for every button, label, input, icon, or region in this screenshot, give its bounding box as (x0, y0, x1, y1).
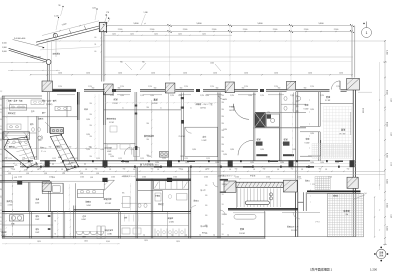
svg-text:1,350: 1,350 (86, 72, 90, 74)
svg-text:1,2: 1,2 (0, 182, 2, 184)
curved wall in multi room (234, 104, 250, 120)
svg-text:910: 910 (291, 169, 294, 171)
svg-text:9.0 M2: 9.0 M2 (304, 108, 309, 110)
door arc top-right (331, 81, 340, 90)
svg-text:1,215: 1,215 (140, 158, 144, 160)
svg-text:1,350: 1,350 (339, 72, 343, 74)
svg-text:2,900: 2,900 (118, 29, 123, 31)
svg-text:2,730: 2,730 (170, 95, 174, 97)
svg-text:2,900: 2,900 (304, 29, 309, 31)
svg-text:3,300: 3,300 (386, 50, 388, 55)
svg-text:1,820: 1,820 (86, 119, 90, 121)
svg-text:910: 910 (90, 125, 93, 127)
svg-text:5,800: 5,800 (133, 23, 139, 25)
svg-text:2,730: 2,730 (336, 86, 340, 88)
lower center fixtures (122, 228, 130, 234)
svg-text:1,215: 1,215 (118, 158, 122, 160)
partition x135 (134, 92, 136, 161)
svg-text:2,900: 2,900 (183, 29, 188, 31)
fixture in left mid room (110, 126, 117, 132)
svg-text:1,8: 1,8 (85, 169, 87, 171)
svg-text:4,200: 4,200 (386, 153, 388, 158)
svg-text:910: 910 (147, 107, 150, 109)
svg-text:1,820: 1,820 (110, 156, 114, 158)
svg-text:91: 91 (222, 204, 224, 206)
leader line with arrow (13, 40, 45, 48)
east dim line x385 (384, 40, 386, 245)
hall right wall (295, 192, 297, 237)
svg-text:960: 960 (120, 62, 123, 64)
svg-text:1,2: 1,2 (0, 217, 2, 219)
center room fixtures (155, 193, 161, 201)
svg-text:1,820: 1,820 (125, 162, 129, 164)
svg-text:1,38: 1,38 (80, 173, 83, 175)
svg-text:1,215: 1,215 (206, 158, 210, 160)
east wall (352, 90, 354, 193)
svg-text:1,2: 1,2 (213, 235, 215, 237)
parking grid (328, 194, 364, 237)
svg-text:2,730: 2,730 (210, 86, 214, 88)
svg-text:1,820: 1,820 (248, 95, 252, 97)
hall column left (224, 181, 236, 192)
svg-text:1.5 M2: 1.5 M2 (113, 103, 118, 105)
svg-text:1,2: 1,2 (0, 98, 2, 100)
svg-text:90: 90 (0, 119, 2, 121)
washitsu A walls (300, 126, 320, 128)
column circle at W1 end (46, 60, 51, 65)
svg-text:1,820: 1,820 (310, 162, 314, 164)
svg-text:910: 910 (263, 169, 266, 171)
svg-text:900: 900 (304, 87, 307, 89)
light partition x167 (167, 212, 169, 239)
svg-text:2,900: 2,900 (235, 176, 239, 178)
svg-text:12.6M2: 12.6M2 (107, 234, 112, 236)
svg-text:910: 910 (205, 205, 208, 207)
kitchen fixtures row west (97, 226, 101, 239)
svg-text:2,730: 2,730 (230, 95, 234, 97)
svg-text:1,38: 1,38 (8, 173, 11, 175)
washroom basins (9, 215, 23, 221)
column C4 (225, 82, 234, 93)
svg-text:2,900: 2,900 (266, 176, 270, 178)
wall below circle column (46, 64, 48, 81)
right margin extra ticks (384, 94, 385, 95)
svg-text:CL: CL (160, 108, 162, 110)
corridor wall gaps white (33, 160, 40, 162)
svg-text:960: 960 (142, 62, 145, 64)
svg-text:2,730: 2,730 (390, 162, 392, 166)
svg-text:1,2: 1,2 (227, 235, 229, 237)
dim line y74.8 (30, 74, 352, 76)
svg-text:防火戸: 防火戸 (201, 189, 206, 192)
dark wall segment left (53, 88, 77, 90)
hall stair treads (237, 188, 239, 207)
svg-text:1,820: 1,820 (223, 154, 227, 156)
svg-text:2,900: 2,900 (173, 176, 177, 178)
dim line x151 with ticks (151, 100, 153, 158)
svg-text:1,38: 1,38 (34, 157, 37, 159)
svg-text:1,820: 1,820 (223, 184, 227, 186)
light grid right section (312, 143, 352, 145)
partition x181-184 (180, 93, 182, 161)
door arcs corridor (213, 182, 218, 187)
left top wall segment (2, 95, 42, 97)
svg-text:1,350: 1,350 (58, 72, 62, 74)
corridor ticks (7, 171, 8, 172)
partition x168 thin (167, 93, 169, 161)
svg-text:1,130: 1,130 (54, 16, 59, 18)
svg-text:1,8: 1,8 (0, 229, 2, 231)
column C1 (42, 81, 53, 92)
grid aux line x51 (51, 40, 53, 81)
svg-text:2.73: 2.73 (312, 184, 315, 186)
column C5 (287, 81, 296, 90)
svg-text:4,500: 4,500 (386, 122, 388, 127)
svg-text:調理実習室: 調理実習室 (105, 229, 114, 232)
column C3 (165, 83, 175, 93)
more door thresholds (112, 89, 116, 92)
svg-text:2,730: 2,730 (120, 86, 124, 88)
center block top wall dark (136, 178, 191, 180)
svg-text:1,215: 1,215 (52, 158, 56, 160)
svg-text:CL: CL (190, 108, 192, 110)
svg-text:便所: 便所 (36, 215, 40, 218)
svg-text:2,900: 2,900 (111, 176, 115, 178)
svg-text:2,900: 2,900 (150, 29, 155, 31)
mid partition y225 center (121, 225, 189, 227)
large door arc multi room south (238, 140, 253, 155)
eaves line (103, 56, 353, 58)
svg-text:910: 910 (222, 144, 225, 146)
wc block walls vertical (29, 212, 31, 239)
svg-text:1,2: 1,2 (0, 231, 2, 233)
svg-text:910: 910 (39, 169, 42, 171)
svg-text:91: 91 (222, 214, 224, 216)
svg-text:1.5M2: 1.5M2 (35, 219, 39, 221)
svg-text:90: 90 (0, 149, 2, 151)
svg-text:1,38: 1,38 (96, 173, 99, 175)
top band grid dot pairs (103, 24, 104, 25)
dimension line top-1 (104, 25, 352, 27)
stair ramp A (4, 137, 37, 168)
bottom dim line left (2, 243, 120, 245)
svg-text:910: 910 (222, 95, 225, 97)
svg-text:1,820: 1,820 (180, 156, 184, 158)
wall x104 upper dark (103, 92, 105, 125)
svg-text:150×150×900: 150×150×900 (30, 56, 41, 59)
svg-text:1,38: 1,38 (52, 177, 55, 179)
svg-text:2,900: 2,900 (212, 29, 217, 31)
svg-text:1,450: 1,450 (202, 33, 206, 35)
svg-text:倉庫: 倉庫 (31, 110, 35, 113)
dim line y35 partial (104, 34, 232, 36)
toilet block top wall (2, 211, 120, 213)
svg-text:1,8: 1,8 (61, 169, 63, 171)
svg-text:5,800: 5,800 (257, 23, 263, 25)
svg-text:1,2: 1,2 (0, 168, 2, 170)
svg-text:9.1 M2: 9.1 M2 (202, 140, 207, 142)
svg-text:1,2: 1,2 (0, 210, 2, 212)
svg-text:2,730: 2,730 (274, 86, 278, 88)
svg-text:1,8: 1,8 (157, 169, 159, 171)
left dim line y62 (0, 62, 45, 64)
svg-text:1.5M2: 1.5M2 (35, 232, 39, 234)
svg-text:91: 91 (222, 194, 224, 196)
left fixtures row2 (7, 124, 21, 130)
door jamb mark left (17, 181, 22, 185)
dim ticks y103 row (107, 102, 108, 103)
washitsu B bottom wall (300, 155, 320, 157)
svg-text:910: 910 (147, 139, 150, 141)
svg-text:60: 60 (95, 51, 97, 53)
lower-left partitions (27, 182, 29, 211)
svg-text:5,0: 5,0 (365, 193, 367, 195)
kitchen stall partitions bottom (154, 229, 156, 237)
east secondary dim line (379, 62, 381, 190)
wall y181 left dark (0, 180, 50, 182)
fixture row left corridor (55, 107, 71, 111)
svg-text:2,730: 2,730 (320, 95, 324, 97)
svg-text:90: 90 (0, 129, 2, 131)
svg-text:910: 910 (205, 215, 208, 217)
narrow room dim marks (68, 187, 71, 190)
svg-text:1階平面詳細図 1: 1階平面詳細図 1 (310, 267, 333, 272)
counter in right room (77, 190, 103, 198)
W2 drop line (55, 38, 57, 57)
stair ramp B (50, 135, 78, 170)
svg-text:11.6 M2: 11.6 M2 (239, 233, 245, 235)
svg-text:910: 910 (90, 136, 93, 138)
svg-text:1,38: 1,38 (14, 177, 17, 179)
canopy diagonal W2 (36, 25, 102, 42)
east window marks (350, 112, 352, 135)
east corridor tick column (291, 95, 294, 98)
tiny leader cluster mid top (125, 63, 132, 70)
leader top-right of grid (353, 195, 365, 200)
svg-text:2,900: 2,900 (297, 176, 301, 178)
east classroom tatami grid (324, 107, 352, 157)
door arc multi room (218, 93, 225, 100)
svg-text:910: 910 (222, 109, 225, 111)
svg-text:900: 900 (154, 87, 157, 89)
svg-text:1,2: 1,2 (157, 235, 159, 237)
column mid-right (347, 177, 358, 188)
wc small rooms x120-151 (121, 202, 151, 204)
dark table center-left (50, 128, 63, 134)
fixture between ramps (38, 136, 42, 140)
svg-text:1,820: 1,820 (292, 149, 296, 151)
svg-text:910: 910 (222, 116, 225, 118)
scattered ticks (109, 166, 110, 167)
dim line y70 short left (8, 69, 60, 71)
svg-text:2,900: 2,900 (80, 176, 84, 178)
svg-text:1,2: 1,2 (0, 203, 2, 205)
svg-text:910: 910 (67, 169, 70, 171)
circles under counter (7, 141, 10, 144)
column marks row2 (102, 178, 107, 182)
svg-text:1,820: 1,820 (205, 95, 209, 97)
svg-text:1,38: 1,38 (22, 158, 25, 160)
svg-text:1,820: 1,820 (147, 156, 151, 158)
svg-text:1,820: 1,820 (310, 133, 314, 135)
corridor east wall x296 (295, 92, 297, 161)
svg-text:3,600: 3,600 (2, 51, 7, 53)
svg-text:1,38: 1,38 (44, 173, 47, 175)
svg-text:910: 910 (90, 156, 93, 158)
core horizontal walls (255, 111, 306, 113)
svg-text:1,820: 1,820 (84, 241, 88, 243)
svg-text:1,350: 1,350 (308, 72, 312, 74)
parking dim line (374, 197, 376, 237)
svg-text:1,2: 1,2 (0, 154, 2, 156)
room 104-135 lower fixtures (107, 144, 117, 149)
svg-text:910: 910 (29, 146, 32, 148)
terrace hatch small (315, 176, 330, 178)
svg-text:910: 910 (235, 169, 238, 171)
svg-text:EXP.J: EXP.J (202, 232, 207, 234)
ne rooms partitions (281, 103, 306, 105)
vertical canopy edge right (351, 26, 353, 78)
tatami room label 1 (253, 127, 306, 129)
diagonal dimension above W2 (42, 21, 99, 36)
elevator shaft dark (255, 113, 265, 127)
storage room top wall (74, 209, 120, 211)
far-left tick column lower (5, 213, 8, 216)
column C6 pier (347, 78, 360, 90)
dimension line top-2 (104, 31, 352, 33)
left partitions vertical (27, 116, 29, 133)
scalloped partition (76, 231, 83, 234)
svg-text:1,820: 1,820 (86, 149, 90, 151)
wc partition y225 (2, 224, 53, 226)
room below hall (233, 212, 265, 214)
svg-text:1,820: 1,820 (192, 149, 196, 151)
svg-text:2,900: 2,900 (243, 29, 248, 31)
east rooms tick column (309, 100, 310, 101)
multi room west wall x253 (252, 93, 254, 161)
svg-text:910: 910 (207, 169, 210, 171)
svg-text:1,2: 1,2 (185, 235, 187, 237)
shaft dim column (57, 212, 58, 213)
svg-text:1,38: 1,38 (26, 173, 29, 175)
svg-text:1,215: 1,215 (162, 158, 166, 160)
svg-text:42.5 M2: 42.5 M2 (105, 203, 111, 205)
svg-text:4,500: 4,500 (2, 43, 7, 45)
svg-text:1,2: 1,2 (199, 235, 201, 237)
svg-text:2,730: 2,730 (58, 86, 62, 88)
svg-text:1,820: 1,820 (280, 162, 284, 164)
svg-text:9.0 M2: 9.0 M2 (305, 143, 310, 145)
small room fixtures x133-140 (134, 148, 140, 157)
svg-text:1,820: 1,820 (86, 134, 90, 136)
entry porch arc (293, 212, 300, 219)
grid bubble (362, 28, 372, 38)
svg-text:910: 910 (222, 102, 225, 104)
svg-text:2,730: 2,730 (140, 95, 144, 97)
svg-text:910: 910 (179, 169, 182, 171)
center room divider x162 (162, 191, 164, 212)
svg-text:900: 900 (216, 87, 219, 89)
svg-text:910: 910 (222, 123, 225, 125)
svg-text:1,350: 1,350 (183, 72, 187, 74)
svg-text:1,820: 1,820 (185, 162, 189, 164)
svg-text:1,130: 1,130 (92, 7, 96, 9)
svg-text:91: 91 (95, 44, 97, 46)
svg-text:6.0M2: 6.0M2 (82, 219, 86, 221)
svg-text:1,820: 1,820 (210, 63, 214, 65)
svg-text:1,2: 1,2 (0, 196, 2, 198)
hall wall connector (298, 201, 304, 203)
column C2 (104, 84, 114, 95)
extra ticks y41 line (59, 40, 62, 43)
wc door jambs (48, 215, 51, 217)
svg-text:1,215: 1,215 (74, 158, 78, 160)
svg-text:1,820: 1,820 (230, 149, 234, 151)
ne fixtures (284, 97, 287, 101)
svg-text:2,730: 2,730 (310, 86, 314, 88)
svg-text:2,730: 2,730 (184, 86, 188, 88)
svg-text:ホール: ホール (41, 150, 46, 153)
diagonal wall W1 (9, 48, 48, 60)
east small marks (379, 99, 380, 100)
hall hatched wall band (236, 182, 283, 187)
svg-text:3,000: 3,000 (386, 179, 388, 184)
partition y110 span (104, 109, 182, 111)
protruding room outline (42, 183, 63, 193)
wall below junction column (101, 32, 103, 82)
left partitions horizontal (2, 107, 47, 109)
left small fixtures (12, 106, 15, 108)
hall bottom thick wall (228, 208, 298, 210)
svg-text:21.3 M2: 21.3 M2 (291, 230, 297, 232)
svg-text:1,820: 1,820 (100, 149, 104, 151)
wall x318 between rooms (317, 92, 319, 127)
svg-text:21.0 M2: 21.0 M2 (179, 136, 186, 138)
svg-text:1,450: 1,450 (154, 33, 158, 35)
svg-text:910: 910 (9, 146, 12, 148)
svg-text:1,350: 1,350 (274, 72, 278, 74)
corridor dim x70 (69, 210, 71, 238)
fixture row bottom of big room (160, 152, 169, 158)
svg-text:1,8: 1,8 (325, 169, 327, 171)
svg-text:1,8: 1,8 (0, 213, 2, 215)
svg-text:1: 1 (366, 31, 368, 35)
dimension ticks top band (104, 25, 106, 27)
threshold marks corridor center (256, 154, 267, 156)
svg-text:730: 730 (58, 5, 61, 7)
svg-text:1,38: 1,38 (4, 158, 7, 160)
svg-text:2台: 2台 (346, 213, 349, 216)
svg-text:1,2: 1,2 (0, 175, 2, 177)
svg-text:910: 910 (205, 195, 208, 197)
svg-text:1,800: 1,800 (2, 47, 7, 49)
svg-text:1,820: 1,820 (320, 162, 324, 164)
svg-text:2,900: 2,900 (142, 176, 146, 178)
svg-text:1,8: 1,8 (181, 169, 183, 171)
svg-text:2,730: 2,730 (110, 95, 114, 97)
hall handrail slot (245, 201, 269, 205)
stall row top center room (154, 181, 189, 189)
svg-text:4,500: 4,500 (362, 108, 364, 114)
left margin dim line (6, 98, 8, 160)
svg-text:4.5 M2: 4.5 M2 (8, 204, 13, 206)
lobby door marks (220, 179, 229, 181)
svg-text:2,900: 2,900 (334, 29, 339, 31)
svg-text:910: 910 (319, 169, 322, 171)
svg-text:1,8: 1,8 (229, 169, 231, 171)
hall circles (269, 193, 272, 196)
wall x136 lower (135, 167, 137, 239)
